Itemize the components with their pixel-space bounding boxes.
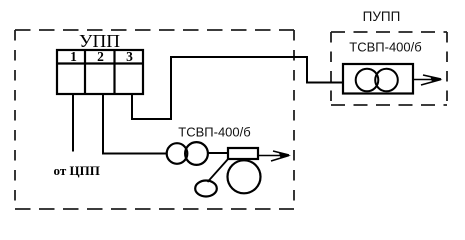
dashed enclosure UPP: [15, 30, 294, 209]
svg-text:1: 1: [70, 49, 77, 64]
wire from cell 3 to PUPP transformer: [132, 57, 344, 119]
svg-text:3: 3: [126, 49, 133, 64]
motor ellipse M2: [195, 181, 217, 197]
svg-text:ПУПП: ПУПП: [363, 9, 401, 24]
wire transformer T1 to starter box: [208, 152, 228, 154]
svg-text:УПП: УПП: [79, 31, 120, 51]
dashed enclosure PUPP: [331, 32, 447, 105]
motor circle M1: [228, 160, 261, 193]
transformer T1 windings: [167, 142, 208, 165]
svg-text:ТСВП-400/б: ТСВП-400/б: [349, 40, 421, 55]
arrowhead UPP output: [279, 153, 291, 158]
wire from cell 2 to transformer T1: [103, 94, 167, 154]
svg-text:2: 2: [97, 49, 104, 64]
svg-text:ТСВП-400/б: ТСВП-400/б: [178, 125, 250, 140]
arrowhead PUPP output: [431, 77, 443, 82]
switchgear box with 3 cells: [57, 50, 143, 94]
PUPP transformer windings: [356, 69, 398, 92]
outgoing wire with arrow (PUPP output): [413, 75, 441, 85]
wire from cell 1 (incoming feeder from CPP): [72, 94, 74, 152]
drive wire to motor M2: [208, 159, 229, 183]
outgoing wire with arrow (UPP output): [258, 151, 289, 161]
PUPP transformer case: [343, 64, 413, 94]
svg-text:от ЦПП: от ЦПП: [54, 163, 100, 178]
starter box: [228, 148, 258, 159]
